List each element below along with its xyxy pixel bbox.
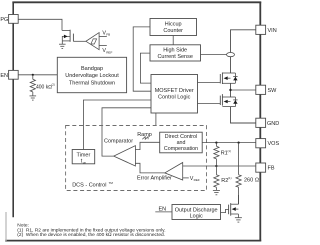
wire low side FET source to GND pin xyxy=(231,107,256,123)
label Ramp xyxy=(137,132,152,138)
IC boundary top border xyxy=(12,1,261,3)
block MOSFET Driver Control Logic xyxy=(151,75,198,114)
svg-text:(2): (2) xyxy=(52,83,55,87)
node Vfb input stub xyxy=(99,36,107,38)
svg-text:Timer: Timer xyxy=(76,153,90,159)
svg-text:(1): (1) xyxy=(228,149,231,153)
wire EN pin to Bandgap block xyxy=(18,74,57,76)
wire Hiccup Counter to MOSFET driver xyxy=(133,27,151,91)
block Bandgap / UVLO / Thermal Shutdown xyxy=(57,57,126,92)
wire driver to low side FET gate xyxy=(198,102,221,104)
note text xyxy=(17,223,165,239)
svg-text:400 kΩ: 400 kΩ xyxy=(36,84,52,90)
wire driver to DCS-Control block xyxy=(155,113,157,126)
svg-text:(2) When the device is enable: (2) When the device is enabled, the 400 … xyxy=(17,232,165,238)
ground (discharge MOSFET source) xyxy=(235,214,242,222)
wire timer to driver xyxy=(83,100,151,150)
pin GND xyxy=(256,118,279,127)
wire VIN pin to high side FET drain xyxy=(231,30,256,73)
label Error Amplifier xyxy=(137,176,172,182)
DCS-Control dashed boundary xyxy=(66,126,207,191)
svg-text:REF: REF xyxy=(194,178,200,182)
current sense element (ellipse) xyxy=(227,53,235,57)
svg-text:VOS: VOS xyxy=(268,141,280,147)
svg-text:Bandgap: Bandgap xyxy=(81,66,103,72)
figure left lower border xyxy=(5,212,7,241)
svg-text:Current Sense: Current Sense xyxy=(157,54,192,60)
label Comparator xyxy=(104,138,133,144)
wire comparator output to driver xyxy=(102,108,151,156)
svg-text:GND: GND xyxy=(267,121,279,127)
svg-text:High Side: High Side xyxy=(163,48,187,54)
node R1 top junction xyxy=(215,142,217,144)
svg-text:DCS - Control: DCS - Control xyxy=(72,183,106,189)
op-amp error amplifier xyxy=(165,163,183,181)
IC boundary right border xyxy=(259,2,261,242)
wire SW node to SW pin xyxy=(231,89,256,91)
transistor PG open-drain MOSFET xyxy=(62,30,73,42)
pin PG xyxy=(0,15,18,24)
pin FB xyxy=(256,163,275,172)
svg-text:EN: EN xyxy=(159,207,167,213)
ramp sawtooth symbol xyxy=(142,137,148,140)
svg-text:Counter: Counter xyxy=(163,28,183,34)
wire Output Discharge Logic to discharge FET gate xyxy=(221,209,229,212)
svg-text:Logic: Logic xyxy=(190,213,203,219)
label 400 kOhm xyxy=(36,83,55,91)
label Vfb xyxy=(102,30,110,36)
resistor 400 kOhm xyxy=(30,75,35,92)
diode high side FET body diode xyxy=(233,73,237,83)
svg-text:FB: FB xyxy=(106,33,110,37)
label R2 xyxy=(221,176,231,184)
label Vref (error amplifier) xyxy=(190,176,200,182)
wire PG pin to pull-down MOSFET drain xyxy=(18,19,62,30)
wire EN stub to Output Discharge Logic xyxy=(155,211,172,213)
svg-text:PG: PG xyxy=(0,17,8,23)
pin SW xyxy=(256,85,277,94)
svg-text:on: on xyxy=(83,161,87,165)
wire High Side Current Sense to MOSFET driver xyxy=(140,53,151,83)
wire high side FET source to SW node xyxy=(230,83,232,97)
svg-text:Thermal Shutdown: Thermal Shutdown xyxy=(69,80,115,86)
svg-text:(1): (1) xyxy=(228,176,231,180)
diode low side FET body diode xyxy=(233,97,237,107)
node EN junction xyxy=(32,74,34,76)
node 260 Ohm top junction xyxy=(238,142,240,144)
label DCS - Control TM xyxy=(72,181,113,189)
figure bottom border xyxy=(5,240,261,242)
svg-text:Control Logic: Control Logic xyxy=(158,95,191,101)
op-amp PG comparator with hysteresis xyxy=(86,33,99,50)
transistor high side MOSFET xyxy=(220,73,235,85)
svg-text:TM: TM xyxy=(109,181,114,185)
block Direct Control and Compensation xyxy=(160,132,203,153)
svg-text:EN: EN xyxy=(0,73,8,79)
block Output Discharge Logic xyxy=(172,205,221,220)
wire FB pin to error amplifier input xyxy=(183,165,256,167)
pin EN xyxy=(0,70,18,79)
node Vref input stub (error amplifier) xyxy=(183,177,189,179)
svg-text:FB: FB xyxy=(268,166,275,172)
resistor R2 xyxy=(214,166,219,187)
block High Side Current Sense xyxy=(150,45,201,61)
label Vref xyxy=(102,48,112,54)
svg-text:REF: REF xyxy=(106,51,112,55)
node FB junction xyxy=(215,165,217,167)
wire VOS pin to Direct Control and ramp xyxy=(202,142,256,144)
node SW junction xyxy=(229,89,231,91)
svg-text:VIN: VIN xyxy=(268,28,277,34)
svg-text:MOSFET Driver: MOSFET Driver xyxy=(155,88,194,94)
wire driver to high side FET gate xyxy=(198,81,221,83)
op-amp comparator xyxy=(114,146,136,166)
label R1 xyxy=(221,149,231,157)
ground (R2) xyxy=(213,187,220,195)
wire error amplifier output to comparator input xyxy=(135,163,164,173)
transistor low side MOSFET xyxy=(220,94,235,107)
resistor 260 Ohm xyxy=(236,143,241,205)
wire Hiccup Counter to High Side Current Sense xyxy=(172,36,174,45)
label 260 Ohm xyxy=(244,178,259,184)
resistor R1 xyxy=(214,143,219,166)
svg-text:SW: SW xyxy=(268,88,278,94)
ground (400 kOhm resistor) xyxy=(30,92,37,100)
node Vref input stub xyxy=(99,44,107,46)
wire current sense to sense element xyxy=(201,54,231,56)
block Timer ton xyxy=(72,150,95,165)
pin VOS xyxy=(256,139,280,148)
svg-text:260 Ω: 260 Ω xyxy=(244,178,259,184)
svg-text:Error Amplifier: Error Amplifier xyxy=(137,176,172,182)
wire comparator output to MOSFET gate xyxy=(73,40,86,42)
IC boundary left border xyxy=(12,2,14,218)
svg-text:Undervoltage Lockout: Undervoltage Lockout xyxy=(65,73,119,79)
transistor output discharge MOSFET xyxy=(229,195,239,216)
svg-text:Comparator: Comparator xyxy=(104,138,133,144)
svg-text:Hiccup: Hiccup xyxy=(165,22,182,28)
label EN (output discharge) xyxy=(159,207,167,213)
svg-text:Compensation: Compensation xyxy=(164,146,198,152)
pin VIN xyxy=(256,25,277,34)
block Hiccup Counter xyxy=(150,19,197,36)
ground (PG MOSFET source) xyxy=(59,41,66,49)
wire ramp node to comparator input xyxy=(135,142,159,149)
